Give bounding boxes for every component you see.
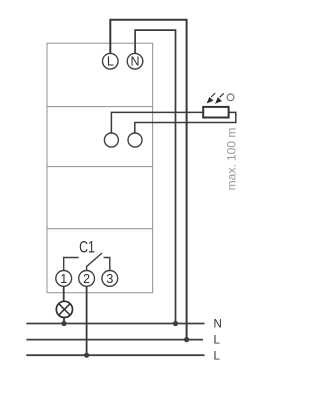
- light arrow 2: [216, 93, 224, 103]
- divider row1/row2: [47, 106, 153, 108]
- switch contact fixed 3: [104, 258, 110, 271]
- bus line L (bottom): [26, 354, 204, 356]
- junction dot N wire / N bus: [173, 321, 178, 326]
- terminal N: [127, 53, 143, 69]
- svg-text:max. 100 m: max. 100 m: [225, 128, 239, 191]
- svg-text:L: L: [214, 335, 221, 347]
- wire terminal2 to L bus: [86, 286, 88, 355]
- sensor head circle: [227, 94, 234, 101]
- divider row2/row3: [47, 166, 153, 168]
- junction dot terminal2 wire / L bus: [84, 353, 89, 358]
- svg-text:L: L: [107, 55, 114, 69]
- svg-text:1: 1: [60, 272, 67, 286]
- junction dot lamp / N bus: [61, 321, 66, 326]
- terminal row2 right: [128, 133, 142, 147]
- switch blade from 2: [87, 253, 103, 271]
- light sensor body: [203, 107, 228, 118]
- wire lamp to N bus: [63, 318, 65, 324]
- svg-text:N: N: [214, 318, 222, 330]
- terminal 3: [102, 271, 118, 287]
- lamp: [56, 301, 72, 317]
- device box outline: [47, 43, 153, 293]
- wire sensor top (left row2 terminal to sensor left): [111, 112, 203, 133]
- terminal 2: [79, 271, 95, 287]
- light arrow 1: [208, 93, 216, 103]
- terminal L: [103, 53, 119, 69]
- terminal row2 left: [104, 133, 118, 147]
- junction dot L wire / L bus: [184, 337, 189, 342]
- svg-text:2: 2: [83, 272, 90, 286]
- switch contact fixed 1: [64, 258, 79, 271]
- svg-text:C1: C1: [79, 239, 95, 257]
- wire terminal1 to lamp: [63, 286, 65, 301]
- svg-text:N: N: [130, 55, 139, 69]
- bus line N: [26, 323, 204, 325]
- wire N (terminal N up, over and down to N bus): [135, 30, 175, 323]
- wire L (terminal L up, over and down to L bus): [110, 20, 186, 340]
- divider row3/row4: [47, 228, 153, 230]
- svg-text:3: 3: [106, 272, 113, 286]
- terminal 1: [56, 271, 72, 287]
- bus line L (middle): [26, 339, 203, 341]
- wire sensor bottom (right row2 terminal under sensor to its right side): [135, 112, 236, 133]
- svg-text:L: L: [214, 350, 221, 362]
